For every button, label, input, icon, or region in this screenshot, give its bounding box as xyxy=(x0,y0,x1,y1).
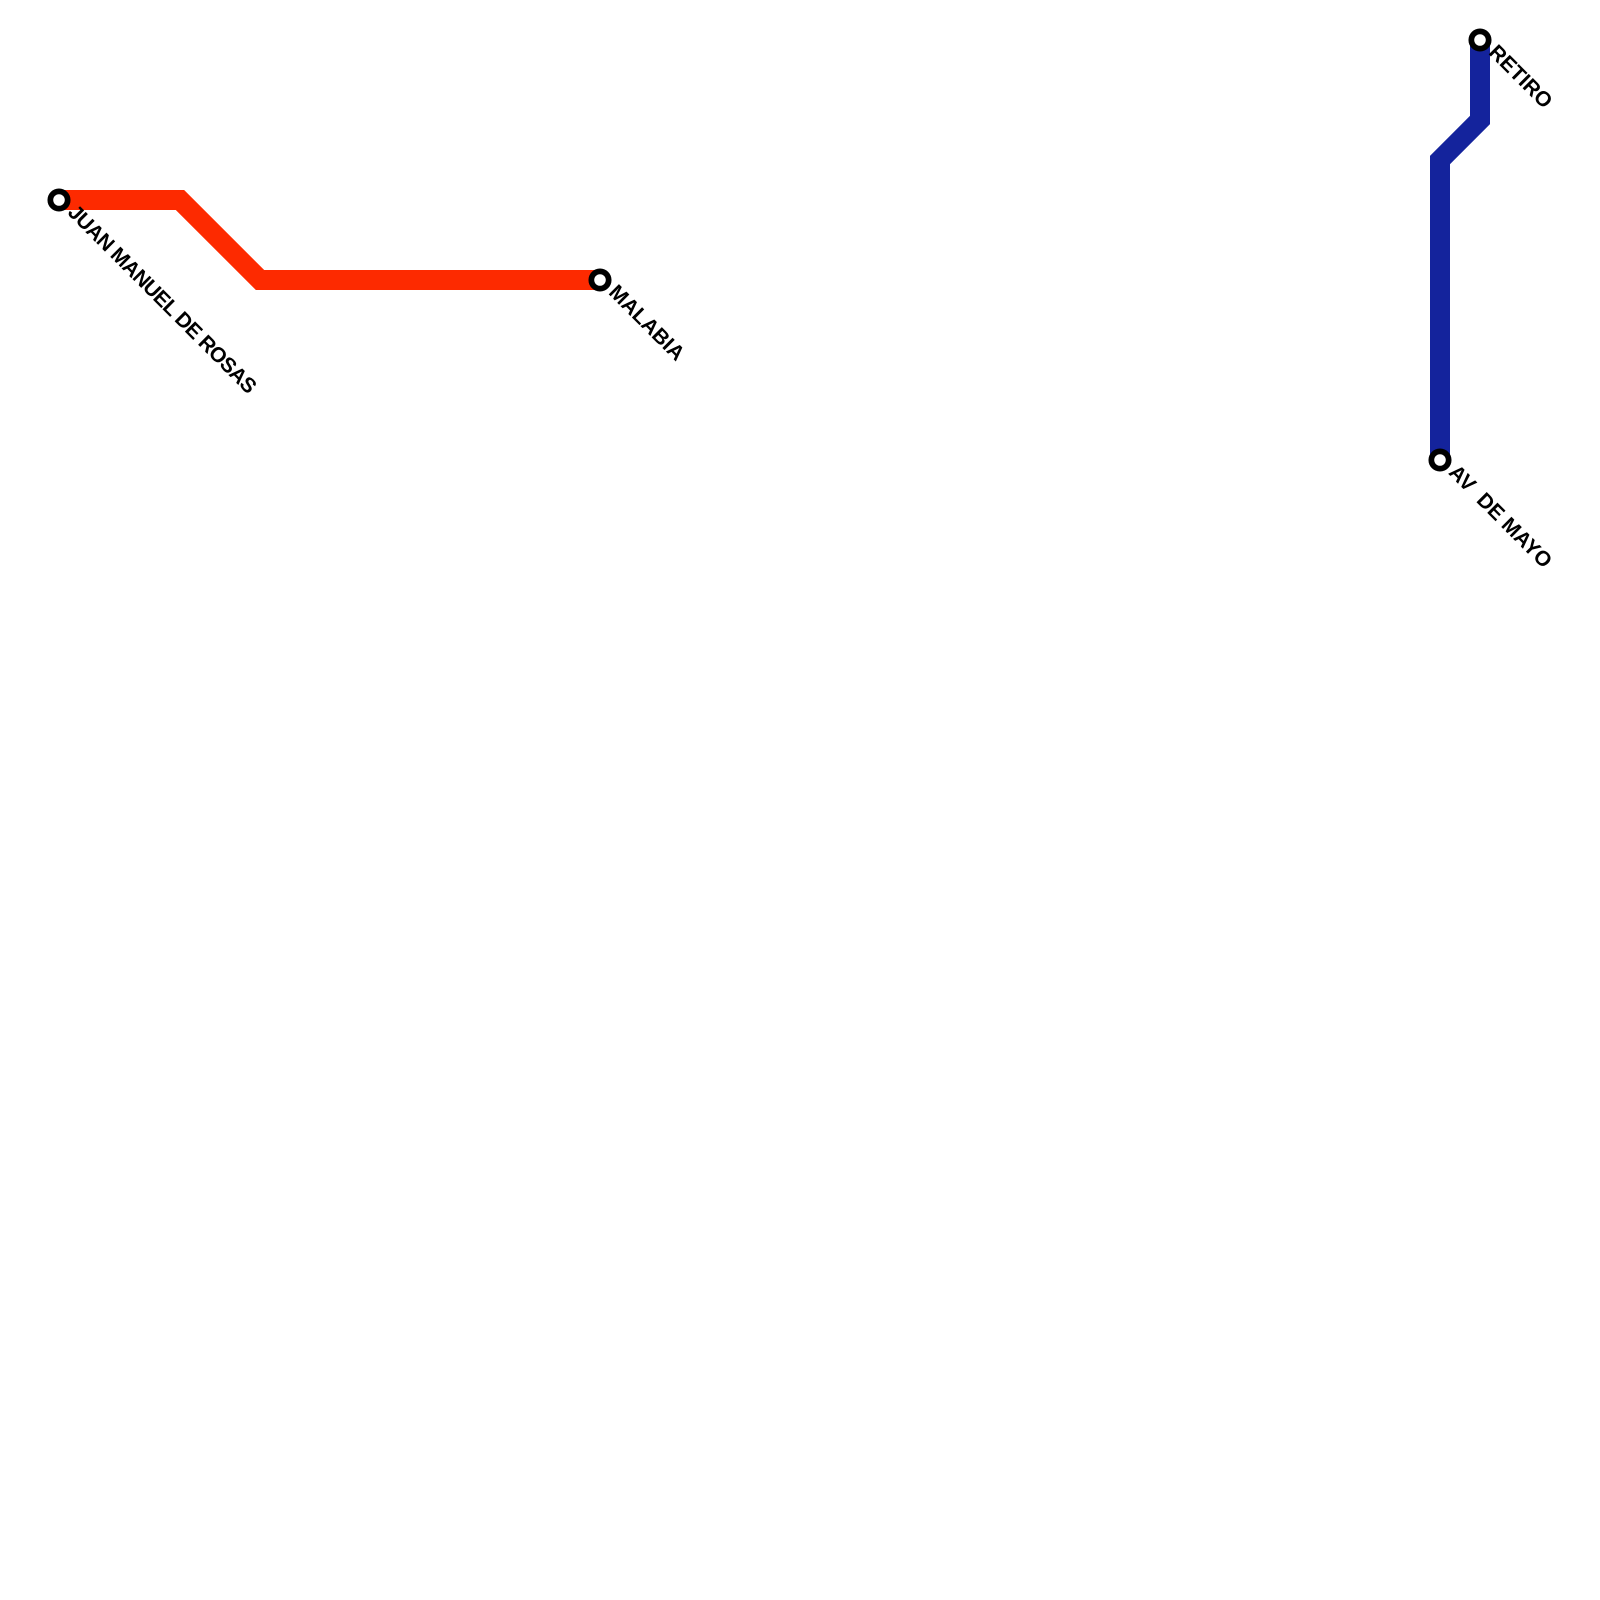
station Retiro xyxy=(1471,31,1488,48)
line B (red) Juan Manuel de Rosas - Malabia xyxy=(59,200,600,280)
station Juan Manuel de Rosas xyxy=(50,191,67,208)
line C (blue) Retiro - Av de Mayo xyxy=(1440,40,1480,460)
station Malabia xyxy=(591,271,608,288)
station Av de Mayo xyxy=(1431,451,1448,468)
